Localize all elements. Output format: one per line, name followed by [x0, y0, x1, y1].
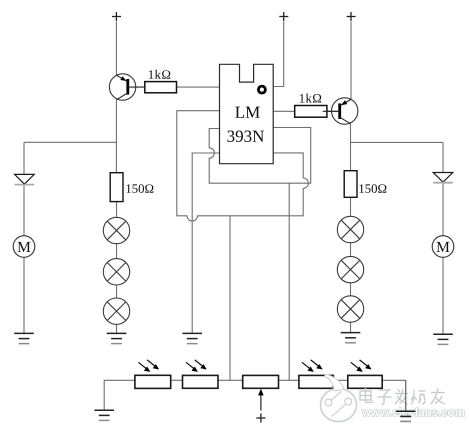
wire rail R5 to R6	[171, 379, 183, 381]
photoresistor R8	[299, 360, 333, 388]
op-amp U1 LM393N body	[220, 64, 274, 163]
photoresistor R9	[348, 360, 382, 388]
lamp X5	[337, 256, 363, 282]
wire branch node A down to sensor rail	[229, 216, 231, 380]
ground sensor rail right (over watermark)	[396, 380, 416, 421]
ground U1 pin4 wire	[182, 333, 202, 343]
label R3 value	[126, 184, 153, 193]
diode D1	[15, 174, 35, 184]
wire node to right diode column	[351, 141, 444, 143]
supply + mid	[279, 12, 288, 21]
label R2 value	[300, 94, 321, 103]
wire U1 pin4 left to ground	[192, 153, 219, 333]
wire Q1 collector down to R3	[115, 100, 117, 173]
ground left lamps	[107, 333, 127, 343]
photoresistor R6	[183, 360, 219, 388]
lamp X1	[103, 217, 129, 243]
resistor R1 1kOhm	[145, 82, 177, 93]
wire Q2 collector down to R4	[350, 124, 352, 171]
label R4 value	[359, 184, 386, 193]
supply + right	[347, 12, 356, 21]
wire X3 to ground	[116, 324, 118, 333]
supply + left	[112, 12, 121, 21]
motor M1	[13, 236, 35, 258]
wire D2 to M2	[442, 182, 444, 235]
wire M1 to ground	[23, 257, 25, 333]
wire + left supply to Q1 emitter	[115, 22, 117, 76]
diode D2	[433, 173, 453, 183]
wire R4 to lamp X4	[350, 197, 352, 216]
wire sensor rail left end to ground	[104, 380, 135, 410]
wire R3 to lamp X1	[116, 202, 118, 218]
watermark chinese text	[360, 388, 445, 404]
label U1 LM	[235, 107, 260, 118]
resistor R4 150Ohm	[344, 171, 357, 198]
wire rail RP1 to R8	[279, 379, 299, 381]
wire node at y142 to left diode column	[24, 141, 116, 143]
ground left motor	[14, 333, 34, 343]
wire U1 pin2 loop to pin4 right side	[177, 111, 309, 221]
ground right lamps	[341, 333, 361, 343]
wire X1 to X2	[116, 244, 118, 259]
lamp X2	[103, 259, 129, 285]
wire rail R6 to RP1	[218, 379, 243, 381]
wire branch node B down to sensor rail	[288, 183, 290, 380]
label U1 393N	[227, 131, 264, 142]
wire R2 to Q2 base	[327, 110, 339, 112]
wire + mid supply to U1 vcc	[273, 22, 284, 87]
wire rail right end to ground	[382, 380, 406, 411]
wire X6 to ground	[350, 322, 352, 332]
potentiometer RP1	[243, 375, 279, 410]
wire X4 to X5	[350, 243, 352, 257]
U1 pin1 index dot	[258, 86, 265, 93]
wire X5 to X6	[350, 283, 352, 296]
lamp X6	[337, 296, 363, 322]
watermark url text	[362, 408, 464, 416]
supply + bottom	[256, 413, 265, 422]
wire down to D2	[442, 142, 444, 172]
wire U1 pin3 loop left-right	[209, 128, 311, 184]
ground sensor rail right	[396, 411, 416, 421]
ground sensor rail left	[94, 410, 114, 420]
label R1 value	[149, 70, 170, 79]
photoresistor R5	[135, 360, 171, 389]
lamp X4	[337, 216, 363, 242]
wire + right supply to Q2 emitter	[350, 22, 352, 100]
wire rail R8 to R9	[333, 379, 348, 381]
resistor R2 1kOhm	[295, 106, 327, 118]
transistor Q2	[323, 98, 358, 124]
ground right motor	[433, 334, 453, 344]
wire M2 to ground	[442, 257, 444, 334]
lamp X3	[103, 298, 129, 324]
transistor Q1	[109, 74, 144, 100]
wire U1 to R2	[273, 110, 295, 112]
resistor R3 150Ohm	[110, 173, 123, 202]
wire D1 to M1	[23, 184, 25, 236]
motor M2	[432, 236, 454, 258]
watermark logo circle	[321, 375, 357, 422]
wire X2 to X3	[116, 285, 118, 298]
wire R1 to U1 pin	[177, 86, 220, 88]
wire down to D1	[23, 142, 25, 174]
